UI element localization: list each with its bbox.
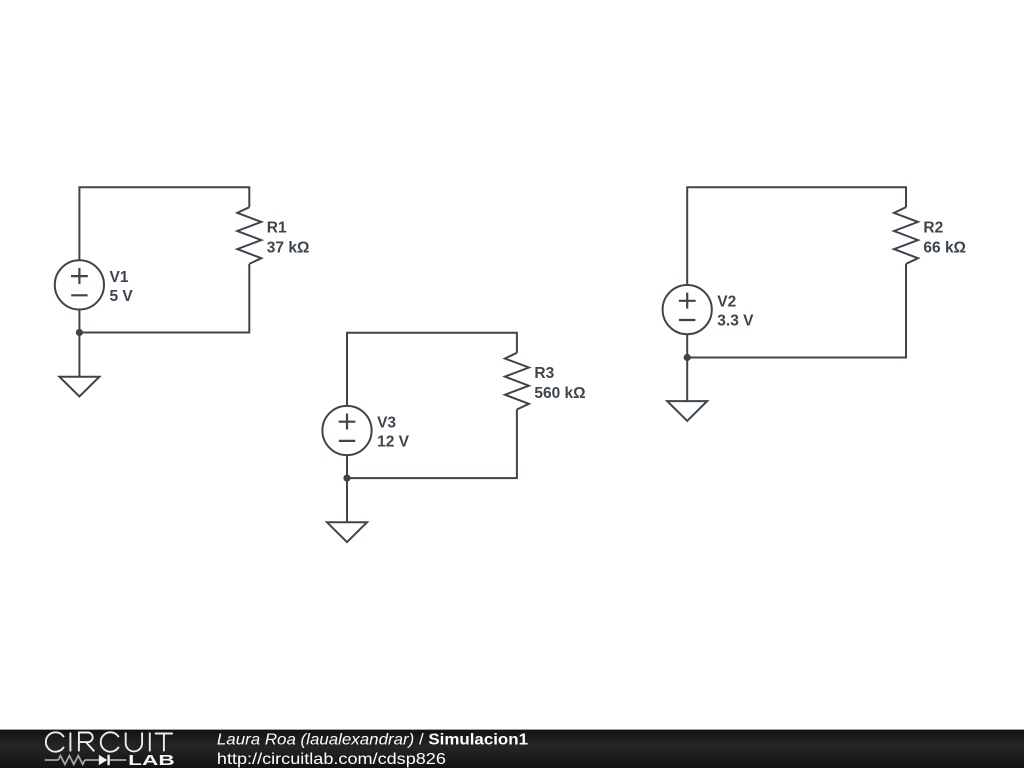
voltage source V1 [55, 260, 104, 309]
svg-text:LAB: LAB [128, 753, 175, 768]
wire source bottom to node circuit 1 [78, 310, 80, 333]
svg-text:V3: V3 [377, 415, 396, 432]
logo letter C2 [101, 732, 119, 751]
wire top of circuit 2 [347, 333, 517, 406]
wire right-bottom of circuit 2 [347, 410, 517, 479]
voltage source V2 [663, 285, 712, 334]
logo resistor lead wire [45, 759, 59, 761]
voltage source V3 [322, 406, 371, 455]
logo diode cathode bar [107, 755, 109, 765]
resistor R3 [505, 353, 529, 410]
node junction dot circuit 3 [684, 354, 691, 361]
svg-text:3.3 V: 3.3 V [717, 313, 754, 330]
logo letter U [126, 733, 142, 752]
resistor R2 [894, 207, 918, 264]
wire source bottom to node circuit 2 [346, 455, 348, 478]
wire top of circuit 3 [687, 187, 906, 284]
svg-text:5 V: 5 V [110, 288, 134, 305]
logo letter T [155, 734, 173, 752]
svg-text:R3: R3 [534, 365, 554, 382]
logo letter I2 [149, 733, 151, 752]
ground circuit 2 [327, 478, 367, 542]
ground circuit 3 [667, 358, 707, 421]
wire right-bottom of circuit 1 [79, 264, 249, 333]
wire source bottom to node circuit 3 [686, 334, 688, 357]
CircuitLab logo wordmark CIRCUIT [46, 732, 173, 751]
logo wire squiggle to diode [85, 759, 99, 761]
node junction dot circuit 2 [343, 475, 350, 482]
logo letter I1 [69, 733, 71, 752]
svg-text:12 V: 12 V [377, 434, 410, 451]
footer bar [0, 730, 1024, 768]
wire top of circuit 1 [79, 187, 249, 260]
svg-text:R1: R1 [267, 220, 287, 237]
logo resistor squiggle [58, 756, 85, 765]
logo letter R [79, 733, 94, 752]
svg-text:R2: R2 [923, 220, 943, 237]
svg-text:66 kΩ: 66 kΩ [923, 240, 966, 257]
logo letter C1 [46, 732, 64, 751]
svg-text:37 kΩ: 37 kΩ [267, 240, 310, 257]
svg-text:http://circuitlab.com/cdsp826: http://circuitlab.com/cdsp826 [217, 751, 446, 768]
svg-text:Laura Roa (laualexandrar) / Si: Laura Roa (laualexandrar) / Simulacion1 [217, 732, 528, 749]
logo diode triangle [99, 755, 107, 765]
svg-text:V2: V2 [717, 294, 736, 311]
resistor R1 [237, 207, 261, 264]
svg-text:560 kΩ: 560 kΩ [534, 385, 585, 402]
node junction dot circuit 1 [76, 329, 83, 336]
logo wire diode to LAB [110, 759, 126, 761]
wire right-bottom of circuit 3 [687, 264, 906, 358]
ground circuit 1 [59, 333, 99, 397]
svg-text:V1: V1 [110, 269, 129, 286]
